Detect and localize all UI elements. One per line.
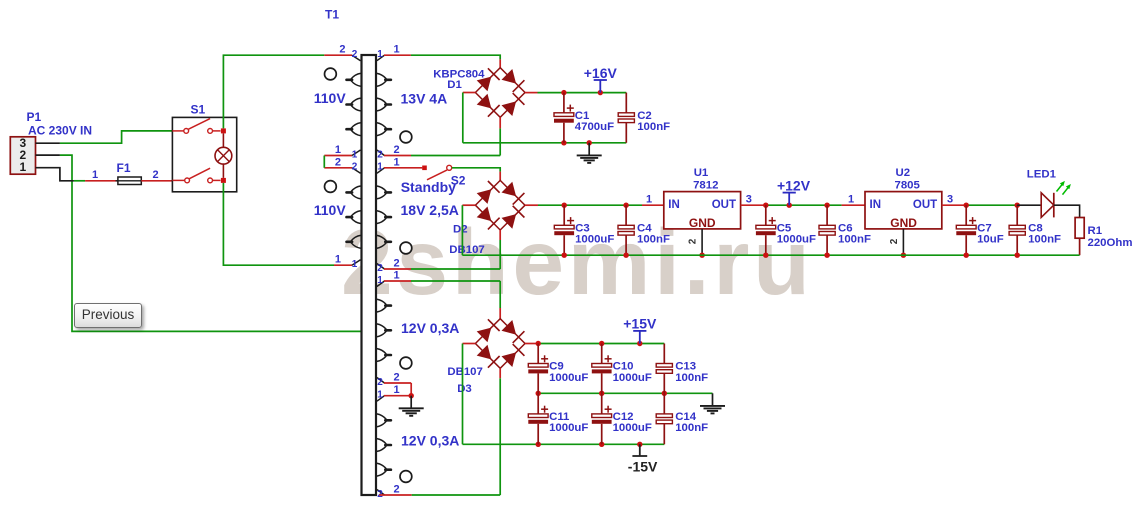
junction C3 top [562, 203, 567, 208]
junction C1 top [561, 90, 566, 95]
pin number 2 of T1 (L side, y=55.2) [339, 44, 357, 60]
svg-text:1: 1 [394, 44, 400, 56]
voltage regulator U1 7812 [664, 192, 741, 230]
junction C8 top [1015, 203, 1020, 208]
svg-text:D1: D1 [447, 79, 462, 91]
capacitor C3 (1000uF electrolytic) [554, 205, 574, 255]
power symbol -15V [632, 444, 647, 456]
wire ground rail of block 1 [463, 142, 627, 144]
wire D1 negative (left) to ground rail [463, 93, 476, 143]
junction C6 bottom [824, 253, 829, 258]
svg-text:C8: C8 [1028, 222, 1043, 234]
switch S2 (standby) [422, 165, 452, 180]
svg-text:100nF: 100nF [675, 422, 708, 434]
svg-text:2: 2 [688, 238, 699, 244]
svg-text:2: 2 [394, 372, 400, 384]
pin number 1 of T1 (R side, y=55.2) [377, 44, 399, 60]
capacitor C12 (1000uF electrolytic) [592, 393, 612, 444]
pin number 1 of T1 (L side, y=155.5) [335, 144, 358, 160]
svg-text:2: 2 [377, 377, 383, 388]
svg-text:12V 0,3A: 12V 0,3A [401, 320, 459, 336]
svg-text:1: 1 [646, 194, 652, 206]
wire series link between primary windings [324, 156, 352, 168]
pin number 1 of T1 (L side, y=265.2) [335, 254, 358, 270]
transformer T1 secondary winding 18V 2,5A [377, 168, 391, 269]
svg-text:1000uF: 1000uF [777, 234, 816, 246]
transformer T1 primary winding 1 (110V top left) [347, 55, 361, 155]
wire -15V rail [463, 443, 665, 445]
junction C5 top [763, 203, 768, 208]
junction +16V tap [598, 90, 603, 95]
voltage regulator U2 7805 [865, 192, 942, 230]
svg-text:110V: 110V [314, 90, 347, 106]
svg-text:2: 2 [377, 149, 383, 160]
svg-text:U1: U1 [694, 167, 709, 179]
svg-text:+12V: +12V [777, 177, 811, 193]
svg-text:2: 2 [352, 162, 358, 173]
wire U2 output to C7 C8 (5V rail) [942, 204, 1017, 206]
svg-text:+16V: +16V [584, 65, 618, 81]
wire C8 to LED1 anode [1017, 204, 1041, 206]
svg-text:100nF: 100nF [1028, 234, 1061, 246]
svg-text:F1: F1 [117, 161, 131, 175]
svg-text:C9: C9 [549, 361, 564, 373]
svg-text:C11: C11 [549, 411, 570, 423]
ground (earth) symbol block 3 [700, 393, 725, 413]
transformer T1 secondary winding 12V 0,3A upper [377, 281, 391, 383]
pin number 1 of T1 (R side, y=281.0) [377, 270, 399, 286]
wire S1 lower output to primary 2 pin 1 [223, 183, 352, 265]
svg-text:2: 2 [352, 49, 358, 60]
resistor R1 [1075, 218, 1084, 256]
svg-text:DB107: DB107 [447, 366, 482, 378]
svg-text:1: 1 [352, 259, 358, 270]
svg-text:1: 1 [377, 49, 383, 60]
junction +12V tap [787, 203, 792, 208]
power symbol +12V [783, 193, 796, 206]
junction C8 bottom [1015, 253, 1020, 258]
capacitor C11 (1000uF electrolytic) [528, 393, 548, 444]
svg-text:D2: D2 [453, 223, 468, 235]
svg-text:110V: 110V [314, 202, 347, 218]
capacitor C13 (100nF film) [656, 344, 672, 394]
wire F1 to S1 lower input [141, 180, 172, 182]
LED LED1 [1041, 181, 1071, 218]
svg-text:GND: GND [890, 216, 917, 230]
junction C7 top [964, 203, 969, 208]
svg-text:C12: C12 [613, 411, 634, 423]
transformer T1 secondary winding 13V 4A [377, 55, 391, 155]
svg-text:220Ohm: 220Ohm [1088, 237, 1133, 249]
wire 0V rail (bottom of middle section) [462, 254, 1079, 256]
power symbol +16V [594, 80, 607, 93]
watermark 2shemi.ru [341, 209, 814, 316]
junction C11 bottom [536, 442, 541, 447]
capacitor C4 (100nF film) [618, 205, 634, 255]
svg-text:3: 3 [947, 194, 953, 206]
svg-text:100nF: 100nF [637, 121, 670, 133]
svg-text:2: 2 [889, 238, 900, 244]
capacitor C5 (1000uF electrolytic) [756, 205, 776, 255]
svg-text:T1: T1 [325, 8, 339, 22]
svg-text:D3: D3 [457, 383, 472, 395]
junction pad at S1 lower output [221, 178, 226, 183]
svg-text:1: 1 [394, 156, 400, 168]
svg-text:C6: C6 [838, 222, 853, 234]
junction center tap [409, 393, 414, 398]
svg-text:2: 2 [377, 263, 383, 274]
svg-text:2: 2 [153, 169, 159, 181]
svg-text:1: 1 [394, 384, 400, 396]
svg-text:AC 230V IN: AC 230V IN [28, 123, 92, 137]
svg-text:1000uF: 1000uF [549, 372, 588, 384]
wire 13V pin2 to D1 AC bottom [384, 117, 500, 155]
svg-text:1: 1 [394, 270, 400, 282]
svg-text:1: 1 [377, 390, 383, 401]
fuse F1 [116, 177, 144, 185]
wire 12V lower pin2 to D3 AC bottom [379, 368, 500, 495]
svg-text:P1: P1 [27, 110, 42, 124]
junction ground symbol tap [587, 140, 592, 145]
svg-text:7805: 7805 [895, 180, 921, 192]
svg-text:1000uF: 1000uF [613, 422, 652, 434]
svg-text:OUT: OUT [712, 199, 736, 211]
capacitor C6 (100nF film) [819, 205, 835, 255]
svg-text:2: 2 [335, 156, 341, 168]
wire P1 pin1 to fuse F1 [36, 168, 118, 181]
svg-text:1: 1 [377, 162, 383, 173]
svg-text:4700uF: 4700uF [575, 121, 614, 133]
svg-text:18V 2,5A: 18V 2,5A [401, 202, 459, 218]
junction C4 bottom [623, 253, 628, 258]
svg-text:IN: IN [668, 199, 680, 211]
connector P1 (AC 230V IN) [10, 136, 35, 174]
svg-text:C3: C3 [575, 222, 590, 234]
junction C10 top [599, 341, 604, 346]
junction pad at S1 upper output [221, 128, 226, 133]
svg-text:C7: C7 [977, 222, 992, 234]
pin number 1 of T1 (R side, y=167.8) [377, 156, 399, 172]
wire P1 pin2 (earth) down and right to transformer core [36, 155, 362, 331]
phase dot circle 18V winding [400, 242, 412, 254]
svg-text:C1: C1 [575, 110, 590, 122]
transformer T1 secondary winding 12V 0,3A lower [377, 396, 391, 495]
phase dot circle primary 1 [325, 68, 337, 80]
svg-text:-15V: -15V [628, 459, 658, 475]
phase dot circle 12V upper winding [400, 357, 412, 369]
wire 12V windings center tap to ground [384, 383, 411, 396]
capacitor C7 (10uF electrolytic) [956, 205, 976, 255]
wire 18V pin2 to D2 AC bottom [384, 230, 500, 269]
phase dot circle 13V winding [400, 131, 412, 143]
svg-text:1: 1 [335, 254, 341, 266]
transformer T1 primary winding 2 (110V bottom left) [347, 168, 361, 265]
power symbol +15V [633, 331, 646, 344]
pin number 2 of T1 (R side, y=269.0) [377, 258, 399, 274]
svg-text:C10: C10 [613, 361, 634, 373]
wire U1 GND pin to 0V rail [701, 229, 703, 255]
svg-text:2: 2 [394, 258, 400, 270]
svg-text:C2: C2 [637, 110, 652, 122]
svg-text:C14: C14 [675, 411, 697, 423]
junction -15V tap [637, 442, 642, 447]
junction C10 bottom [599, 391, 604, 396]
svg-text:1: 1 [20, 160, 27, 174]
svg-text:2: 2 [339, 44, 345, 56]
wire D2 negative (left) down to 0V rail [462, 205, 475, 255]
wire +16V rail (D1 positive to C1 C2) [525, 92, 626, 94]
junction C4 top [623, 203, 628, 208]
wire U2 GND pin to 0V rail [902, 229, 904, 255]
svg-text:+15V: +15V [623, 316, 657, 332]
svg-text:U2: U2 [896, 167, 911, 179]
svg-text:DB107: DB107 [449, 244, 484, 256]
bridge rectifier D2 (diamond with 4 diodes) [475, 180, 525, 230]
bridge rectifier D1 (diamond with 4 diodes) [475, 68, 525, 118]
svg-text:R1: R1 [1088, 225, 1103, 237]
svg-text:10uF: 10uF [977, 234, 1004, 246]
svg-text:1: 1 [92, 169, 98, 181]
svg-text:1: 1 [352, 149, 358, 160]
svg-text:1000uF: 1000uF [575, 234, 614, 246]
pin number 2 of T1 (L side, y=167.8) [335, 156, 358, 172]
capacitor C10 (1000uF electrolytic) [592, 344, 612, 394]
junction C3 bottom [562, 253, 567, 258]
svg-text:1: 1 [848, 194, 854, 206]
junction C1 bottom [561, 140, 566, 145]
wire S1 output riser to primary 1 pin 2 [223, 55, 352, 128]
svg-text:1000uF: 1000uF [613, 372, 652, 384]
junction C12 bottom [599, 442, 604, 447]
capacitor C8 (100nF film) [1009, 205, 1025, 255]
capacitor C14 (100nF film) [656, 393, 672, 444]
svg-text:Standby: Standby [401, 179, 456, 195]
junction C9 bottom [536, 391, 541, 396]
svg-text:2: 2 [394, 144, 400, 156]
wire P1 pin3 to S1 upper input [36, 131, 173, 143]
svg-text:C5: C5 [777, 222, 792, 234]
junction U1 GND on 0V rail [699, 253, 704, 258]
svg-text:100nF: 100nF [637, 234, 670, 246]
phase dot circle 12V lower winding [400, 471, 412, 483]
svg-text:S1: S1 [191, 103, 206, 117]
junction C9 top [536, 341, 541, 346]
junction C7 bottom [964, 253, 969, 258]
wire mid 0V rail of block 3 [538, 392, 712, 394]
capacitor C1 (4700uF electrolytic) [554, 93, 574, 143]
Previous button [74, 303, 142, 328]
wire D3 negative (left) down to -15V rail [463, 344, 476, 445]
switch S1 (DPST mains switch with lamp) [172, 117, 236, 191]
svg-text:1000uF: 1000uF [549, 422, 588, 434]
junction C13 bottom [662, 391, 667, 396]
svg-text:GND: GND [689, 216, 716, 230]
wire LED1 cathode to R1 [1054, 205, 1080, 217]
svg-text:1: 1 [335, 144, 341, 156]
wire 13V pin1 to D1 AC top [384, 55, 500, 68]
svg-text:C13: C13 [675, 361, 696, 373]
transformer T1 core [362, 55, 377, 495]
svg-text:3: 3 [746, 194, 752, 206]
svg-text:7812: 7812 [693, 180, 718, 192]
bridge rectifier D3 (diamond with 4 diodes) [475, 319, 525, 369]
wire D3 positive rail (+15V) to C9 C10 C13 [525, 343, 664, 345]
svg-text:1: 1 [377, 275, 383, 286]
wire 18V pin1 to standby switch S2 [384, 167, 422, 169]
svg-text:LED1: LED1 [1027, 168, 1057, 180]
junction +15V tap [637, 341, 642, 346]
ground (earth) symbol at transformer center tap [399, 396, 424, 416]
svg-text:OUT: OUT [913, 199, 937, 211]
wire U1 output to U2 input (+12V rail) [741, 204, 865, 206]
svg-text:100nF: 100nF [675, 372, 708, 384]
pin number 2 of T1 (R side, y=495.0) [377, 484, 399, 500]
wire D2 positive rail to U1 input [525, 204, 664, 206]
svg-text:100nF: 100nF [838, 234, 871, 246]
junction U2 GND on 0V rail [901, 253, 906, 258]
svg-text:12V 0,3A: 12V 0,3A [401, 433, 459, 449]
svg-text:IN: IN [870, 199, 882, 211]
pin number 2 of T1 (R side, y=383.0) [377, 372, 399, 388]
wire S2 to D2 AC top [452, 168, 500, 181]
phase dot circle primary 2 [325, 181, 337, 193]
pin number 2 of T1 (R side, y=155.5) [377, 144, 399, 160]
pin number 1 of T1 (R side, y=395.7) [377, 384, 399, 400]
svg-text:13V 4A: 13V 4A [401, 91, 448, 107]
capacitor C9 (1000uF electrolytic) [528, 344, 548, 394]
svg-text:C4: C4 [637, 222, 652, 234]
capacitor C2 (100nF film) [618, 93, 634, 143]
junction C6 top [824, 203, 829, 208]
ground (earth) symbol block 1 [577, 143, 602, 163]
junction C5 bottom [763, 253, 768, 258]
svg-text:2: 2 [394, 484, 400, 496]
wire 12V upper pin1 to D3 AC top [384, 281, 500, 319]
